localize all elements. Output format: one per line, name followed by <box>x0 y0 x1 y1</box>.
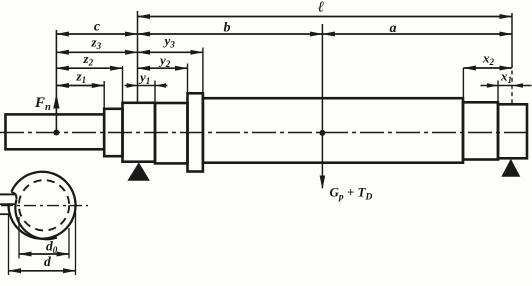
extension line bearing 1 center <box>137 11 139 103</box>
pulley outer circle with mouth gap <box>9 172 76 239</box>
extension line x2 end <box>462 68 464 98</box>
shaft section G right step <box>463 102 498 159</box>
bearing support triangle left <box>127 162 150 180</box>
dimension line z3 <box>56 51 137 53</box>
node load point Fn <box>53 130 59 136</box>
svg-text:a: a <box>390 21 397 36</box>
extension line y1 end <box>154 81 156 104</box>
extension line d0 left <box>18 217 20 259</box>
dimension line l <box>138 16 513 18</box>
extension line d0 right <box>68 228 70 259</box>
bearing support triangle right <box>501 159 520 177</box>
svg-text:ℓ: ℓ <box>318 0 324 16</box>
extension line x1 end <box>497 81 499 103</box>
svg-text:c: c <box>94 20 101 35</box>
pulley hub dashed circle <box>19 180 69 230</box>
belt arc inside pulley <box>15 200 57 240</box>
extension line y3 end <box>202 48 204 94</box>
force arrow Fn <box>55 30 57 133</box>
extension line z1 end <box>103 81 105 109</box>
extension line y2 end <box>187 64 189 94</box>
dimension line b <box>138 33 323 35</box>
wire centerline of shaft <box>0 132 531 134</box>
extension line d left <box>8 215 10 276</box>
shaft section B step <box>104 109 122 156</box>
belt line lower <box>0 213 11 215</box>
shaft section C bearing journal left <box>123 103 156 162</box>
shaft section D <box>155 103 188 163</box>
svg-text:d: d <box>44 254 51 269</box>
extension line bearing 2 center dashed <box>511 71 513 105</box>
extension line bearing 2 center upper <box>511 13 513 68</box>
pulley mouth lower lip <box>0 203 15 205</box>
pulley centerline <box>1 205 88 207</box>
dimension line y1 outside arrows <box>125 85 168 87</box>
dimension line z1 <box>56 85 104 87</box>
dimension line x1 outside arrows <box>481 85 532 87</box>
dimension line y3 <box>138 51 203 53</box>
node load point Gp+TD <box>319 130 325 136</box>
svg-text:b: b <box>224 21 231 36</box>
dimension line d0 <box>19 253 69 255</box>
dimension line c <box>56 33 137 35</box>
pulley mouth notch vertical <box>15 194 18 199</box>
dimension line y2 <box>138 67 188 69</box>
dimension line z2 <box>56 67 122 69</box>
shaft collar E <box>188 93 203 171</box>
force arrow Gp+TD <box>321 24 323 188</box>
dimension line a <box>322 33 512 35</box>
extension line z2 end <box>122 66 124 103</box>
dimension line x2 <box>463 67 512 69</box>
pulley mouth hook joint <box>11 192 16 195</box>
shaft section F main body <box>203 98 463 163</box>
shaft section A left thin end <box>6 114 105 149</box>
shaft section H right bearing journal <box>498 104 527 158</box>
extension line d right <box>75 211 77 275</box>
dimension line d <box>9 270 76 272</box>
pulley mouth upper lip <box>0 193 16 195</box>
